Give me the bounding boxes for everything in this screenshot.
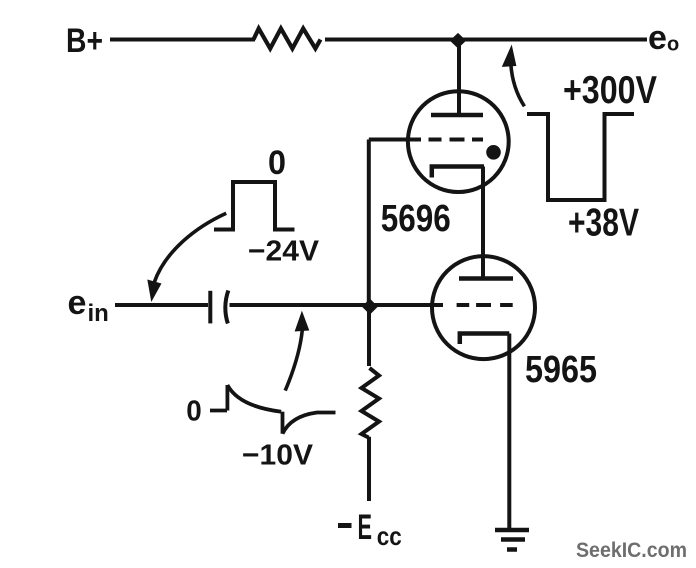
arrow grid waveform to input node	[285, 311, 309, 391]
svg-text:0: 0	[186, 396, 202, 428]
tube V1 plate	[431, 40, 483, 116]
svg-text:o: o	[667, 34, 679, 56]
output waveform	[527, 114, 634, 200]
svg-text:e: e	[648, 19, 667, 57]
svg-text:5965: 5965	[525, 349, 597, 391]
tube V2 envelope	[432, 256, 535, 359]
arrow to output waveform	[502, 45, 525, 107]
capacitor C1	[210, 291, 228, 324]
tube V1 grid (dashed)	[369, 138, 483, 142]
wire e_in to capacitor	[115, 303, 208, 307]
tube V2 plate	[459, 276, 513, 281]
wire V2 cathode to ground	[507, 334, 511, 530]
wire V1 grid to input node	[367, 140, 371, 306]
tube V2 cathode	[460, 334, 510, 345]
label -Ecc	[338, 507, 402, 551]
svg-text:B+: B+	[66, 22, 103, 60]
junction input node	[362, 299, 378, 315]
grid waveform	[210, 385, 336, 434]
svg-text:E: E	[358, 507, 373, 547]
svg-text:−24V: −24V	[248, 236, 320, 268]
resistor R2 (grid resistor)	[362, 305, 380, 501]
svg-text:−10V: −10V	[242, 440, 314, 472]
junction plate node	[450, 33, 466, 49]
tube V1 envelope	[408, 91, 509, 192]
svg-text:5696: 5696	[381, 198, 451, 240]
resistor R1 (plate load)	[254, 29, 321, 49]
wire top rail right	[325, 38, 647, 42]
svg-text:SeekIC.com: SeekIC.com	[576, 539, 687, 562]
wire V1 cathode to V2 plate	[481, 167, 485, 279]
svg-text:+300V: +300V	[563, 69, 657, 112]
input pulse waveform	[214, 182, 295, 230]
svg-text:0: 0	[268, 144, 286, 182]
wire capacitor to grid node	[230, 303, 444, 307]
svg-text:cc: cc	[377, 521, 402, 551]
label e_in	[68, 284, 109, 327]
arrow input pulse to e_in	[147, 213, 226, 302]
wire top rail left	[110, 38, 255, 42]
label e_o	[648, 19, 679, 57]
ground	[495, 530, 529, 550]
tube V2 grid (dashed)	[457, 303, 513, 307]
tube V1 gas dot	[486, 145, 501, 160]
tube V1 cathode	[432, 167, 484, 178]
svg-text:e: e	[68, 284, 87, 322]
svg-text:+38V: +38V	[568, 202, 639, 245]
svg-text:in: in	[88, 300, 109, 327]
